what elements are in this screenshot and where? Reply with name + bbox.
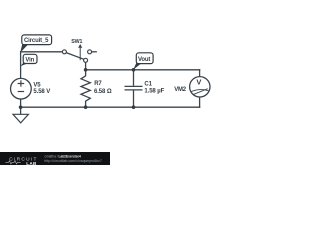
svg-text:Vout: Vout bbox=[138, 57, 150, 63]
node label Vout bbox=[133, 53, 153, 70]
svg-text:1.58 µF: 1.58 µF bbox=[144, 88, 164, 94]
svg-text:http://circuitlab.com/c/xsqwnp: http://circuitlab.com/c/xsqwnprc6kv7 bbox=[44, 159, 102, 163]
node junction V5/ground bbox=[19, 105, 23, 109]
svg-text:VM2: VM2 bbox=[174, 87, 187, 93]
junction dots bbox=[19, 68, 136, 109]
ground bbox=[13, 114, 28, 123]
meter scale arc bbox=[191, 90, 208, 92]
resistor R7 bbox=[81, 70, 112, 107]
node junction switch/R7 top bbox=[84, 68, 88, 72]
node junction Vout/C1 top bbox=[132, 68, 136, 72]
node junction C1 bottom bbox=[132, 105, 136, 109]
svg-text:LAB: LAB bbox=[26, 161, 37, 165]
watermark banner bbox=[0, 152, 110, 166]
svg-text:R7: R7 bbox=[94, 81, 102, 87]
wire top from node corner to switch left terminal bbox=[21, 52, 63, 79]
svg-text:SW1: SW1 bbox=[71, 39, 82, 45]
wire VM2 bottom lead bbox=[199, 97, 201, 107]
wire stub right of switch bbox=[92, 51, 97, 53]
svg-text:V: V bbox=[196, 77, 201, 86]
svg-text:6.58 Ω: 6.58 Ω bbox=[94, 89, 112, 95]
capacitor C1 bbox=[125, 70, 165, 107]
wire VM2 top lead bbox=[199, 70, 201, 77]
wire lever bbox=[66, 53, 84, 60]
node label Circuit_5 bbox=[20, 35, 51, 53]
terminal left bbox=[62, 50, 66, 54]
terminal pole pivot bbox=[84, 58, 88, 62]
meter needle bbox=[194, 89, 208, 95]
voltage source V5 bbox=[11, 78, 51, 99]
wire switch pole down to main node bbox=[85, 62, 87, 70]
wire V5 bottom lead to ground bbox=[20, 99, 22, 114]
node label Vin bbox=[20, 54, 37, 66]
voltmeter VM2 bbox=[174, 77, 210, 97]
switch SW1 bbox=[62, 39, 91, 62]
node junction R7 bottom bbox=[84, 105, 88, 109]
wire bottom ground row bbox=[21, 106, 200, 108]
wire main Vout row bbox=[86, 69, 200, 71]
svg-text:5.58 V: 5.58 V bbox=[33, 89, 50, 95]
terminal right bbox=[88, 50, 92, 54]
svg-text:V5: V5 bbox=[33, 83, 41, 89]
svg-text:Circuit_5: Circuit_5 bbox=[24, 38, 49, 44]
logo waveform bbox=[6, 161, 21, 164]
svg-text:C1: C1 bbox=[144, 82, 152, 88]
svg-text:Vin: Vin bbox=[25, 57, 34, 63]
switch arrow bbox=[79, 47, 81, 60]
